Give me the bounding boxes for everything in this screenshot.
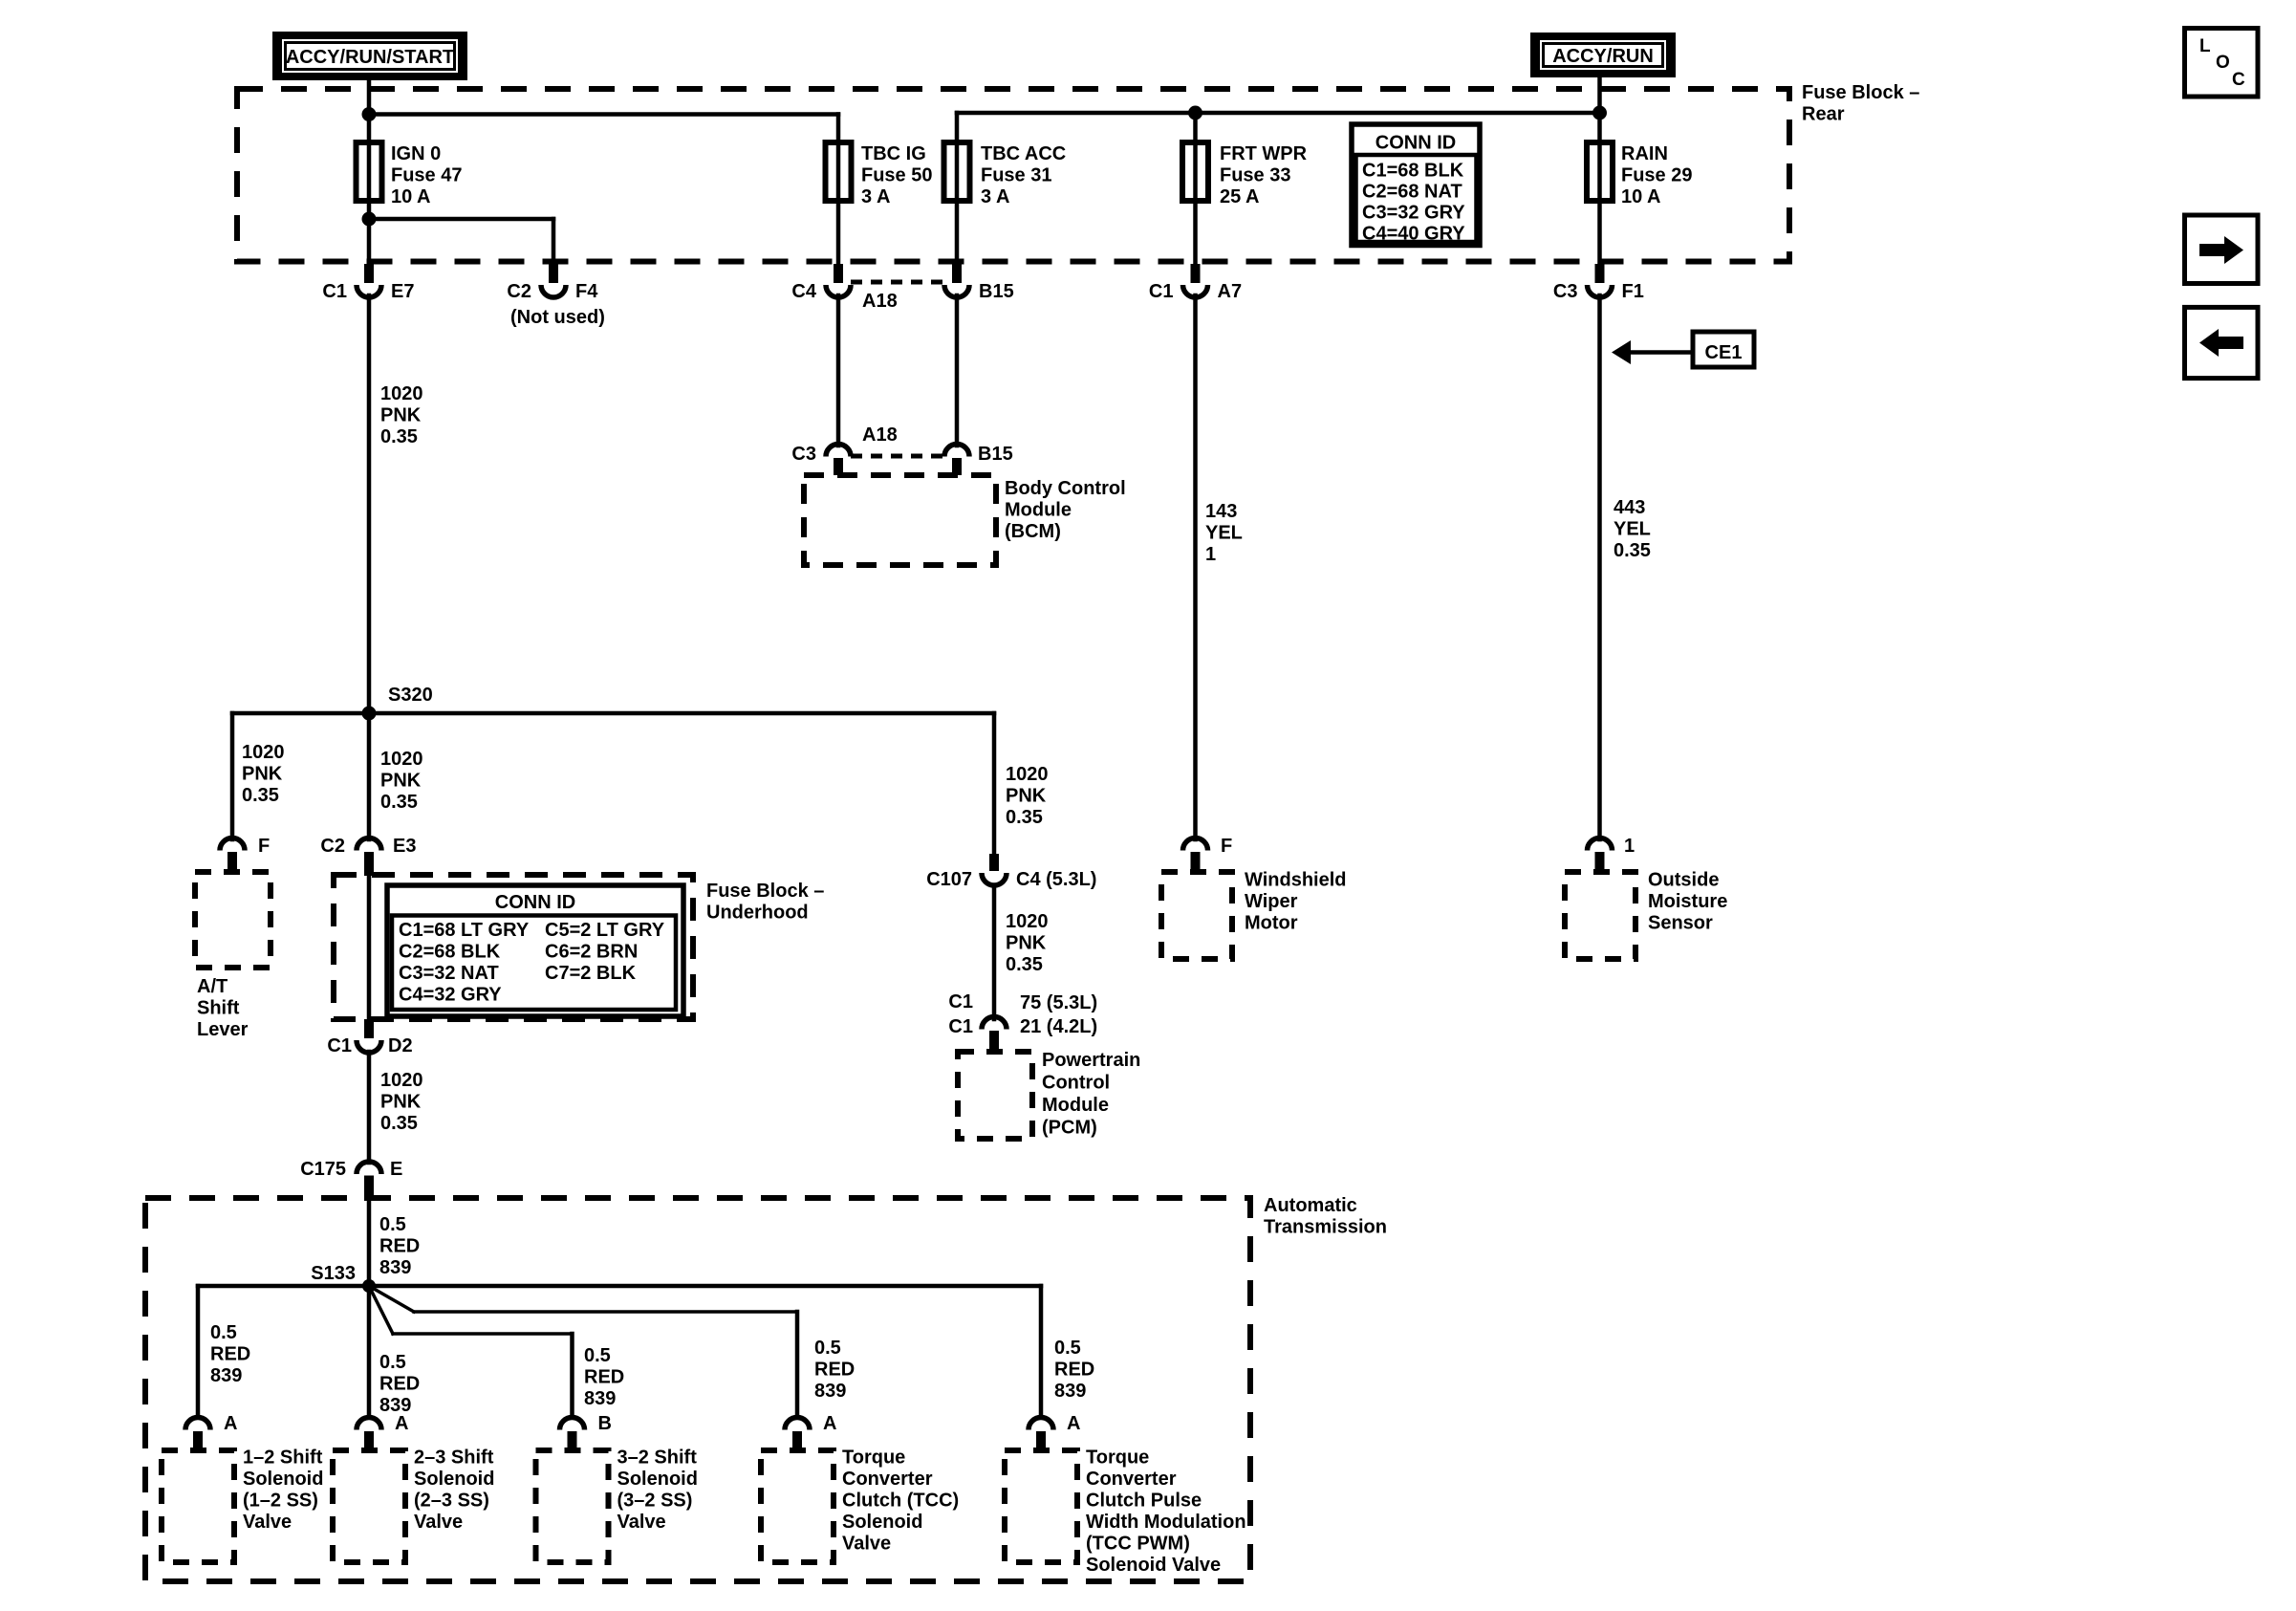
svg-text:Solenoid: Solenoid [243, 1469, 323, 1490]
svg-text:839: 839 [379, 1257, 411, 1278]
svg-text:Solenoid Valve: Solenoid Valve [1086, 1555, 1221, 1576]
svg-text:C4: C4 [791, 281, 816, 302]
svg-text:Solenoid: Solenoid [414, 1469, 494, 1490]
outside moisture sensor box [1565, 872, 1635, 959]
svg-text:1: 1 [1624, 836, 1635, 857]
svg-text:Powertrain: Powertrain [1042, 1050, 1140, 1071]
svg-text:PNK: PNK [242, 764, 283, 785]
svg-text:(TCC PWM): (TCC PWM) [1086, 1534, 1190, 1555]
svg-text:0.35: 0.35 [1006, 954, 1043, 975]
svg-text:C: C [2232, 70, 2245, 90]
backward arrow symbol [2185, 307, 2259, 378]
power feed ACCY/RUN/START [272, 32, 467, 80]
svg-text:RED: RED [379, 1374, 420, 1395]
svg-text:Body Control: Body Control [1005, 478, 1126, 499]
svg-text:A: A [395, 1413, 408, 1434]
svg-text:1020: 1020 [1006, 911, 1049, 932]
svg-text:YEL: YEL [1614, 519, 1651, 540]
svg-text:3 A: 3 A [861, 186, 890, 207]
svg-text:RAIN: RAIN [1621, 143, 1668, 164]
fuse block - underhood box [334, 875, 693, 1019]
junction dot at (1673.5,118) [1592, 106, 1607, 120]
connector A (2-3 shift solenoid valve) [357, 1413, 408, 1450]
svg-text:Module: Module [1005, 500, 1072, 521]
junction dot FRT WPR tap (1250.5,118) [1188, 106, 1202, 120]
svg-text:C2=68 BLK: C2=68 BLK [399, 942, 501, 963]
wire S133 right branch (TCC PWM solenoid) [369, 1286, 1041, 1416]
svg-text:C4=32 GRY: C4=32 GRY [399, 985, 502, 1006]
automatic transmission box [145, 1198, 1250, 1581]
powertrain control module label [1042, 1050, 1140, 1139]
wire ACCY/RUN/START stem (x386) [367, 80, 372, 264]
svg-text:Motor: Motor [1245, 913, 1298, 934]
svg-text:C2: C2 [320, 836, 345, 857]
svg-text:(PCM): (PCM) [1042, 1118, 1097, 1139]
svg-text:Valve: Valve [842, 1534, 891, 1555]
svg-text:F: F [258, 836, 270, 857]
svg-text:21 (4.2L): 21 (4.2L) [1020, 1016, 1097, 1037]
svg-text:E: E [390, 1159, 402, 1180]
connector C1/E7 (IGN 0 out) [322, 264, 414, 302]
svg-text:Outside: Outside [1648, 870, 1719, 891]
wire C175 to S133 [367, 1198, 372, 1286]
wire C107 to PCM [992, 885, 997, 1019]
wire S320 right branch to C107 [992, 713, 997, 856]
fuse TBC ACC label [981, 143, 1066, 207]
A/T shift lever label [197, 976, 249, 1040]
svg-text:B: B [598, 1413, 612, 1434]
wire through underhood block [367, 873, 372, 1021]
svg-text:CE1: CE1 [1705, 342, 1743, 363]
svg-text:A/T: A/T [197, 976, 227, 997]
wire label 1020 PNK 0.35 (right branch) [1006, 764, 1049, 828]
svg-text:A: A [823, 1413, 836, 1434]
svg-text:Converter: Converter [1086, 1469, 1177, 1490]
svg-text:Sensor: Sensor [1648, 913, 1713, 934]
wire label 443 YEL 0.35 [1614, 497, 1651, 561]
wire branch to TBC ACC fuse [957, 113, 1600, 264]
fuse IGN 0 Fuse 47 10A [357, 142, 382, 201]
svg-text:Width Modulation: Width Modulation [1086, 1512, 1246, 1533]
svg-text:RED: RED [379, 1236, 420, 1257]
svg-text:10 A: 10 A [391, 186, 431, 207]
svg-text:FRT WPR: FRT WPR [1220, 143, 1308, 164]
wire S133 diagonal branch (TCC solenoid) [369, 1286, 797, 1416]
wire S320 horizontal [232, 711, 994, 716]
wire D2 to C175 [367, 1052, 372, 1163]
svg-text:A: A [1067, 1413, 1080, 1434]
fuse FRT WPR Fuse 33 25A [1182, 142, 1208, 201]
svg-text:B15: B15 [978, 444, 1013, 465]
connector B (3-2 shift solenoid valve) [560, 1413, 612, 1450]
svg-text:0.35: 0.35 [1614, 540, 1651, 561]
wire C4 to BCM C3 [836, 295, 841, 446]
wire F1 to moisture sensor [1597, 295, 1602, 839]
svg-text:Fuse 29: Fuse 29 [1621, 165, 1692, 186]
LOC reference symbol [2185, 29, 2259, 98]
outside moisture sensor label [1648, 870, 1727, 934]
svg-text:Rear: Rear [1802, 104, 1845, 125]
svg-text:C3: C3 [791, 444, 816, 465]
fuse FRT WPR label [1220, 143, 1308, 207]
svg-text:YEL: YEL [1205, 523, 1243, 544]
svg-text:C1: C1 [327, 1035, 352, 1056]
svg-text:PNK: PNK [1006, 933, 1047, 954]
connector A (TCC solenoid valve) [785, 1413, 836, 1450]
1-2 shift solenoid valve label [243, 1448, 323, 1534]
svg-text:Moisture: Moisture [1648, 891, 1727, 912]
windshield wiper motor box [1161, 872, 1232, 959]
wire label 143 YEL 1 [1205, 501, 1243, 565]
connector B15 (BCM) [944, 444, 1013, 475]
svg-text:443: 443 [1614, 497, 1645, 518]
wire label 0.5 RED 839 (S133 feed) [379, 1214, 420, 1278]
junction S133 [311, 1263, 376, 1293]
wire label 1020 PNK 0.35 (E7) [380, 383, 423, 447]
3-2 shift solenoid valve label [617, 1448, 698, 1534]
svg-text:Module: Module [1042, 1095, 1109, 1116]
svg-text:Solenoid: Solenoid [842, 1512, 922, 1533]
fuse IGN 0 label [391, 143, 462, 207]
svg-text:839: 839 [210, 1365, 242, 1386]
wire B15 to BCM B15 [955, 295, 960, 446]
svg-text:RED: RED [1054, 1360, 1094, 1381]
connector C175/E (inline) [300, 1159, 402, 1201]
svg-text:C107: C107 [926, 869, 972, 890]
dashed connector link A18-B15 (BCM) [851, 454, 944, 459]
wire label 1020 PNK 0.35 (left branch) [242, 742, 285, 806]
svg-text:S133: S133 [311, 1263, 356, 1284]
svg-text:Valve: Valve [617, 1512, 666, 1533]
svg-text:C4=40 GRY: C4=40 GRY [1362, 224, 1465, 245]
connector C107/C4 (inline) [926, 854, 1096, 890]
svg-text:E7: E7 [391, 281, 414, 302]
svg-text:0.5: 0.5 [584, 1345, 611, 1366]
svg-text:25 A: 25 A [1220, 186, 1260, 207]
svg-text:Fuse Block –: Fuse Block – [706, 881, 824, 902]
wire label 0.5 RED 839 (1-2) [210, 1322, 250, 1386]
svg-text:C7=2 BLK: C7=2 BLK [545, 963, 637, 984]
svg-text:0.5: 0.5 [814, 1338, 841, 1359]
wire S133 diagonal branch (3-2 solenoid) [369, 1286, 573, 1416]
svg-text:CONN ID: CONN ID [495, 892, 575, 913]
1-2 shift solenoid valve box [162, 1450, 234, 1562]
connector F (A/T shift lever) [220, 836, 270, 873]
svg-text:0.5: 0.5 [1054, 1338, 1081, 1359]
svg-text:(3–2 SS): (3–2 SS) [617, 1491, 693, 1512]
wire label 1020 PNK 0.35 (center) [380, 749, 423, 813]
svg-text:C2=68 NAT: C2=68 NAT [1362, 182, 1462, 203]
svg-text:S320: S320 [388, 685, 433, 706]
2-3 shift solenoid valve label [414, 1448, 494, 1534]
svg-text:Fuse Block –: Fuse Block – [1802, 82, 1919, 103]
svg-text:Underhood: Underhood [706, 903, 809, 924]
svg-text:A18: A18 [862, 291, 898, 312]
svg-text:A7: A7 [1218, 281, 1243, 302]
svg-text:C1: C1 [322, 281, 347, 302]
svg-text:Windshield: Windshield [1245, 870, 1346, 891]
TCC solenoid valve label [842, 1448, 959, 1555]
svg-text:0.35: 0.35 [380, 426, 418, 447]
TCC PWM solenoid valve label [1086, 1448, 1246, 1577]
connector C3/A18 (BCM) [791, 425, 897, 475]
power feed ACCY/RUN [1530, 33, 1676, 77]
svg-text:C5=2 LT GRY: C5=2 LT GRY [545, 920, 665, 941]
svg-text:Valve: Valve [243, 1512, 292, 1533]
svg-text:0.5: 0.5 [379, 1214, 406, 1235]
svg-text:C1=68 LT GRY: C1=68 LT GRY [399, 920, 530, 941]
svg-text:Transmission: Transmission [1264, 1217, 1387, 1238]
svg-text:TBC IG: TBC IG [861, 143, 926, 164]
svg-text:C175: C175 [300, 1159, 346, 1180]
fuse block - underhood label [706, 881, 824, 924]
svg-text:Shift: Shift [197, 998, 240, 1019]
wire S133 left branch (1-2 solenoid) [198, 1286, 369, 1416]
CE1 arrow tag [1612, 332, 1754, 367]
svg-text:F: F [1221, 836, 1232, 857]
svg-text:C6=2 BRN: C6=2 BRN [545, 942, 638, 963]
junction S320 [362, 685, 433, 721]
svg-text:RED: RED [814, 1360, 855, 1381]
svg-text:Fuse 33: Fuse 33 [1220, 165, 1290, 186]
wire S133 center branch (2-3 solenoid) [367, 1286, 372, 1416]
connector C1/D2 (underhood out) [327, 1019, 412, 1056]
connector C1/C1 (PCM) [948, 991, 1097, 1052]
svg-text:Automatic: Automatic [1264, 1195, 1357, 1216]
svg-text:1020: 1020 [380, 383, 423, 404]
svg-text:1–2 Shift: 1–2 Shift [243, 1448, 323, 1469]
svg-text:TBC ACC: TBC ACC [981, 143, 1066, 164]
svg-text:Wiper: Wiper [1245, 891, 1298, 912]
fuse RAIN label [1621, 143, 1692, 207]
wire label 1020 PNK 0.35 (D2-C175) [380, 1070, 423, 1134]
2-3 shift solenoid valve box [333, 1450, 405, 1562]
svg-text:F1: F1 [1622, 281, 1644, 302]
svg-text:C2: C2 [507, 281, 531, 302]
fuse block - rear (dashed outline) [237, 89, 1789, 262]
3-2 shift solenoid valve box [536, 1450, 609, 1562]
svg-text:839: 839 [1054, 1381, 1086, 1402]
svg-text:A18: A18 [862, 425, 898, 446]
svg-text:2–3 Shift: 2–3 Shift [414, 1448, 494, 1469]
TCC PWM solenoid valve box [1005, 1450, 1077, 1562]
svg-text:PNK: PNK [380, 771, 422, 792]
wire label 0.5 RED 839 (2-3) [379, 1352, 420, 1416]
svg-text:E3: E3 [393, 836, 416, 857]
wire ACCY/RUN stem (x1673.5) [1597, 77, 1602, 264]
connector C3/F1 (RAIN out) [1553, 264, 1644, 302]
svg-text:0.5: 0.5 [210, 1322, 237, 1343]
svg-text:Torque: Torque [1086, 1448, 1149, 1469]
svg-text:(Not used): (Not used) [510, 307, 605, 328]
fuse block - rear label [1802, 82, 1919, 125]
wire branch to TBC IG fuse [369, 115, 838, 265]
svg-text:F4: F4 [575, 281, 598, 302]
svg-text:O: O [2216, 53, 2230, 73]
svg-text:Fuse 31: Fuse 31 [981, 165, 1051, 186]
svg-text:Clutch (TCC): Clutch (TCC) [842, 1491, 959, 1512]
junction dot at (386,229) [362, 212, 377, 227]
forward arrow symbol [2185, 215, 2259, 284]
automatic transmission label [1264, 1195, 1387, 1238]
svg-text:0.35: 0.35 [1006, 807, 1043, 828]
body control module label [1005, 478, 1126, 542]
connector C4/A18 (TBC IG out) [791, 264, 897, 312]
TCC solenoid valve box [761, 1450, 834, 1562]
svg-text:Clutch Pulse: Clutch Pulse [1086, 1491, 1202, 1512]
svg-text:3 A: 3 A [981, 186, 1009, 207]
svg-text:C3=32 NAT: C3=32 NAT [399, 963, 499, 984]
svg-text:C3: C3 [1553, 281, 1578, 302]
svg-text:C1: C1 [948, 991, 973, 1012]
wire E7 to S320 [367, 295, 372, 713]
svg-text:0.35: 0.35 [380, 1113, 418, 1134]
wire S320 to E3 [367, 713, 372, 839]
windshield wiper motor label [1245, 870, 1346, 934]
svg-text:A: A [224, 1413, 237, 1434]
svg-text:C1: C1 [1149, 281, 1174, 302]
powertrain control module box [958, 1052, 1032, 1139]
svg-text:1020: 1020 [380, 749, 423, 770]
svg-text:CONN ID: CONN ID [1375, 133, 1456, 154]
svg-text:3–2 Shift: 3–2 Shift [617, 1448, 698, 1469]
connector A (1-2 shift solenoid valve) [185, 1413, 237, 1450]
connector C2/F4 (not used) [507, 264, 604, 328]
wire label 0.5 RED 839 (TCC PWM) [1054, 1338, 1094, 1402]
body control module box [804, 475, 996, 565]
svg-text:0.5: 0.5 [379, 1352, 406, 1373]
fuse TBC IG label [861, 143, 932, 207]
wire A7 to wiper motor [1193, 295, 1198, 839]
svg-text:(BCM): (BCM) [1005, 521, 1061, 542]
wire label 1020 PNK 0.35 (PCM branch) [1006, 911, 1049, 975]
svg-text:10 A: 10 A [1621, 186, 1661, 207]
svg-text:C4 (5.3L): C4 (5.3L) [1016, 869, 1096, 890]
svg-text:RED: RED [210, 1344, 250, 1365]
wire branch to C2/F4 (not used) [369, 219, 553, 264]
svg-text:ACCY/RUN/START: ACCY/RUN/START [286, 47, 454, 68]
svg-text:IGN 0: IGN 0 [391, 143, 441, 164]
svg-text:C3=32 GRY: C3=32 GRY [1362, 203, 1465, 224]
fuse RAIN Fuse 29 10A [1587, 142, 1613, 201]
CONN ID table (fuse block rear) [1352, 124, 1480, 246]
svg-text:Solenoid: Solenoid [617, 1469, 698, 1490]
connector A (TCC PWM solenoid valve) [1029, 1413, 1080, 1450]
wire S320 left branch to A/T shift lever [230, 713, 235, 839]
svg-text:PNK: PNK [380, 405, 422, 426]
connector B15 (TBC ACC out) [944, 264, 1014, 302]
wire label 0.5 RED 839 (3-2) [584, 1345, 624, 1409]
fuse TBC ACC Fuse 31 3A [944, 142, 970, 201]
svg-text:RED: RED [584, 1367, 624, 1388]
svg-text:ACCY/RUN: ACCY/RUN [1552, 46, 1654, 67]
connector C1/A7 (FRT WPR out) [1149, 264, 1242, 302]
connector F (wiper motor) [1183, 836, 1233, 873]
svg-text:(1–2 SS): (1–2 SS) [243, 1491, 318, 1512]
svg-text:C1: C1 [948, 1016, 973, 1037]
svg-text:0.35: 0.35 [380, 792, 418, 813]
svg-text:Lever: Lever [197, 1019, 249, 1040]
svg-text:0.35: 0.35 [242, 785, 279, 806]
svg-text:1020: 1020 [380, 1070, 423, 1091]
dashed connector link A18-B15 (top) [851, 280, 944, 285]
svg-text:Valve: Valve [414, 1512, 463, 1533]
wire label 0.5 RED 839 (TCC) [814, 1338, 855, 1402]
svg-text:1020: 1020 [242, 742, 285, 763]
svg-text:839: 839 [584, 1388, 616, 1409]
connector C2/E3 (fuse block underhood) [320, 836, 416, 876]
svg-text:Fuse 47: Fuse 47 [391, 165, 462, 186]
svg-text:PNK: PNK [380, 1092, 422, 1113]
connector 1 (moisture sensor) [1588, 836, 1635, 873]
svg-text:Fuse 50: Fuse 50 [861, 165, 932, 186]
CONN ID table (fuse block underhood) [387, 885, 683, 1016]
svg-text:L: L [2199, 36, 2211, 56]
svg-text:143: 143 [1205, 501, 1237, 522]
wire FRT WPR drop [1193, 113, 1198, 264]
svg-text:1: 1 [1205, 544, 1216, 565]
svg-text:Control: Control [1042, 1073, 1110, 1094]
svg-text:1020: 1020 [1006, 764, 1049, 785]
svg-text:Converter: Converter [842, 1469, 933, 1490]
junction dot at (386,119.5) [362, 107, 377, 121]
svg-text:PNK: PNK [1006, 786, 1047, 807]
svg-text:B15: B15 [979, 281, 1014, 302]
svg-text:75 (5.3L): 75 (5.3L) [1020, 992, 1097, 1013]
svg-text:D2: D2 [388, 1035, 413, 1056]
svg-text:Torque: Torque [842, 1448, 905, 1469]
svg-text:C1=68 BLK: C1=68 BLK [1362, 161, 1464, 182]
svg-text:839: 839 [814, 1381, 846, 1402]
A/T shift lever box [195, 872, 271, 968]
svg-text:(2–3 SS): (2–3 SS) [414, 1491, 489, 1512]
fuse TBC IG Fuse 50 3A [826, 142, 852, 201]
